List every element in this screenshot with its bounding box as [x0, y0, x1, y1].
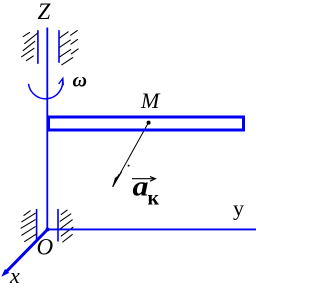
svg-text:y: y — [233, 196, 244, 221]
bottom bearing left wall — [36, 209, 38, 240]
point M marker on rod — [147, 121, 151, 125]
x-axis arrowhead — [1, 269, 9, 277]
omega rotation arc — [29, 79, 63, 99]
svg-text:a: a — [133, 172, 149, 203]
svg-text:Z: Z — [38, 0, 51, 24]
bottom bearing right hatching — [60, 210, 73, 242]
top bearing left hatching — [22, 32, 37, 60]
svg-text:x: x — [9, 263, 20, 288]
Coriolis arrowhead — [113, 172, 122, 187]
x-axis — [5, 230, 48, 274]
svg-text:O: O — [37, 235, 54, 260]
bottom bearing right wall — [57, 209, 59, 242]
origin junction dot — [46, 228, 49, 231]
y-axis — [47, 228, 256, 230]
top bearing left wall — [37, 30, 39, 64]
axis shaft Z (vertical blue line) — [46, 28, 48, 230]
rod (horizontal bar on the axis) — [49, 117, 244, 130]
top bearing right wall — [58, 30, 60, 63]
stray dot — [128, 165, 130, 167]
top bearing right hatching — [60, 31, 78, 65]
svg-text:M: M — [140, 88, 161, 113]
bottom bearing left hatching — [21, 211, 36, 242]
vector a_k over-arrow — [132, 177, 155, 182]
omega arc arrowhead — [59, 78, 64, 85]
svg-text:к: к — [148, 188, 160, 210]
Coriolis acceleration arrow (drawn under rod) — [113, 123, 148, 187]
svg-text:ω: ω — [73, 70, 87, 92]
